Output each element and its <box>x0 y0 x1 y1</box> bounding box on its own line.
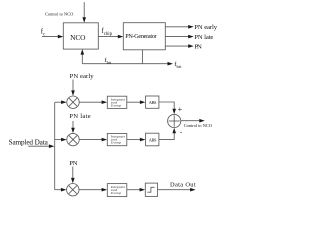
svg-text:Data Out: Data Out <box>170 182 196 189</box>
arrowhead PN early <box>188 25 194 29</box>
svg-text:Dump: Dump <box>110 103 121 107</box>
wire f_bit horizontal <box>82 63 169 65</box>
svg-text:Control to NCO: Control to NCO <box>45 11 73 16</box>
svg-text:+: + <box>178 105 183 114</box>
svg-text:Control to NCO: Control to NCO <box>184 123 212 128</box>
svg-text:NCO: NCO <box>70 33 86 42</box>
wire PN-Generator bottom to f_bit line <box>141 50 143 64</box>
multiplier X2 late <box>67 133 79 145</box>
wire ID3 to limiter <box>127 189 141 191</box>
arrowhead into summer top <box>172 109 176 115</box>
block integrate-and-dump 3 <box>107 184 127 197</box>
wire summer output <box>181 120 201 122</box>
arrowhead into NCO top <box>82 17 86 23</box>
block hard-limiter <box>145 183 157 196</box>
arrowhead into ID1 <box>102 100 108 104</box>
wire sampled-data bus vertical <box>54 102 56 190</box>
wire PN late output <box>165 36 189 38</box>
arrowhead into ID2 <box>102 138 108 142</box>
arrowhead f_bit up into NCO <box>81 49 85 55</box>
block ABS2 <box>146 133 159 146</box>
arrowhead into ID3 <box>102 188 108 192</box>
wire branch to early multiplier <box>55 101 63 103</box>
multiplier X1 early <box>67 96 79 108</box>
svg-text:Sampled Data: Sampled Data <box>9 138 49 146</box>
arrowhead PN early into X1 top <box>71 90 75 96</box>
svg-text:PN early: PN early <box>194 24 217 31</box>
arrowhead f_bit right <box>168 62 174 66</box>
svg-text:PN late: PN late <box>194 34 213 41</box>
svg-text:Dump: Dump <box>110 141 121 145</box>
block PN-Generator <box>123 23 165 50</box>
block integrate-and-dump 1 <box>107 96 127 108</box>
svg-text:PN late: PN late <box>69 113 90 120</box>
svg-text:PN early: PN early <box>70 73 95 80</box>
wire sampled data arrow <box>28 145 51 147</box>
svg-text:PN: PN <box>69 160 77 167</box>
arrowhead branch into X1 <box>61 100 67 104</box>
arrowhead f_c <box>58 35 64 39</box>
arrowhead into summer bottom <box>172 128 176 134</box>
arrowhead branch into X2 <box>61 138 67 142</box>
arrowhead data out <box>190 188 196 192</box>
svg-text:ABS: ABS <box>149 137 157 142</box>
wire PN early down into X1 <box>72 80 74 92</box>
block NCO <box>63 23 98 49</box>
wire X3 to integrate-dump 3 <box>79 189 103 191</box>
wire Control-to-NCO into NCO top <box>83 2 85 18</box>
arrowhead PN into X3 top <box>71 178 75 184</box>
svg-text:PN-Generator: PN-Generator <box>125 33 156 40</box>
arrowhead into ABS1 <box>140 100 146 104</box>
wire ID2 to ABS2 <box>127 139 142 141</box>
arrowhead PN <box>188 44 194 48</box>
wire limiter to data out <box>158 189 192 191</box>
arrowhead PN late into X2 top <box>71 128 75 134</box>
wire X1 to integrate-dump 1 <box>79 101 103 103</box>
svg-text:PN: PN <box>194 43 202 50</box>
arrowhead branch into X3 <box>61 188 67 192</box>
step symbol in limiter <box>147 187 154 192</box>
wire X2 to integrate-dump 2 <box>79 139 103 141</box>
block ABS1 <box>146 96 159 108</box>
wire PN early output <box>165 26 189 28</box>
wire branch to late multiplier <box>55 139 63 141</box>
wire f_bit up into NCO bottom <box>81 54 83 64</box>
svg-text:ABS: ABS <box>149 100 157 105</box>
arrowhead PN late <box>188 35 194 39</box>
wire PN output <box>165 45 189 47</box>
svg-text:Dump: Dump <box>110 191 121 195</box>
wire branch to prompt multiplier <box>55 189 63 191</box>
wire ID1 to ABS1 <box>127 101 142 103</box>
wire PN late down into X2 <box>72 121 74 129</box>
arrowhead f_chip <box>118 35 124 39</box>
wire f_chip NCO to PN-Generator <box>98 36 119 38</box>
wire PN down into X3 <box>72 167 74 179</box>
wire ABS2 to summer bottom <box>159 132 174 140</box>
wire ABS1 to summer top <box>159 102 174 111</box>
arrowhead into limiter <box>140 188 146 192</box>
wire f_c into NCO left <box>42 36 59 38</box>
block integrate-and-dump 2 <box>107 134 127 146</box>
arrowhead summer output <box>199 119 205 123</box>
arrowhead into ABS2 <box>140 138 146 142</box>
arrowhead sampled data into bus <box>49 144 55 148</box>
multiplier X3 prompt <box>67 184 79 196</box>
summer circle <box>168 114 181 127</box>
